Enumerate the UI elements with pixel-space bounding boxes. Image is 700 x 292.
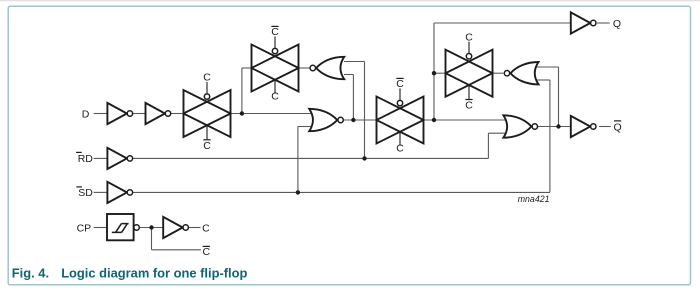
schmitt trigger U5 (CP input) xyxy=(107,214,139,240)
wire TG1 output to node A and NOR G2 input xyxy=(231,113,312,115)
wire schmitt output to node xyxy=(139,227,163,229)
wire Q inverter output xyxy=(597,22,610,24)
wire slave node up to Q xyxy=(434,23,571,120)
svg-text:C: C xyxy=(271,26,279,38)
wire C output xyxy=(189,227,201,229)
wire TG3 output to G4 input xyxy=(424,119,506,121)
node CP junction xyxy=(149,225,153,229)
svg-text:CP: CP xyxy=(77,222,92,234)
wire G1 output to TG2 xyxy=(299,67,310,69)
wire D input xyxy=(94,113,108,115)
svg-text:C: C xyxy=(202,222,210,234)
label Qbar xyxy=(614,121,622,133)
svg-text:C: C xyxy=(271,91,279,103)
svg-text:SD: SD xyxy=(78,187,93,199)
caption title xyxy=(61,265,247,280)
wire G3 lower input from SD net xyxy=(537,80,550,192)
inverter U8 (Qbar output) xyxy=(571,116,596,137)
svg-text:C: C xyxy=(465,31,473,43)
node TG4 tap junction xyxy=(432,71,436,75)
wire G3 output to TG4 xyxy=(493,72,504,74)
svg-text:D: D xyxy=(82,108,90,120)
wire G4 output to Qbar inverter xyxy=(538,126,571,128)
wire G1 upper input from RD net xyxy=(344,62,365,159)
wire SD net xyxy=(133,191,550,193)
node slave junction xyxy=(432,118,436,122)
NOR gate G2 (master) xyxy=(309,109,343,131)
node SD junction xyxy=(296,190,300,194)
wire CP input xyxy=(94,227,107,229)
node RD junction xyxy=(362,156,366,160)
wire G2 lower input from SD net xyxy=(298,127,312,193)
svg-text:C: C xyxy=(203,140,211,152)
NOR gate G4 (slave) xyxy=(503,115,537,137)
wire SD input xyxy=(94,191,108,193)
svg-text:Q: Q xyxy=(613,18,621,30)
node A junction xyxy=(240,111,244,115)
svg-text:RD: RD xyxy=(78,153,94,165)
wire node A up to TG2 input xyxy=(242,68,252,114)
page top edge xyxy=(0,0,700,2)
wire Cbar branch xyxy=(152,228,201,250)
wire G4 lower input from RD net xyxy=(488,133,505,158)
svg-text:C: C xyxy=(465,100,473,112)
wire Qbar inverter output xyxy=(599,126,611,128)
transmission gate TG3 xyxy=(377,78,424,155)
svg-text:C: C xyxy=(396,78,404,90)
label mna421 xyxy=(518,194,550,204)
transmission gate TG4 xyxy=(446,31,493,111)
label Cbar (clock) xyxy=(203,246,211,258)
label C (clock) xyxy=(202,222,210,234)
transmission gate TG1 xyxy=(184,72,231,152)
svg-text:mna421: mna421 xyxy=(518,194,550,204)
wire slave node to TG4 xyxy=(434,72,446,74)
label Q xyxy=(613,18,621,30)
wire G1 lower input from G2 output xyxy=(344,75,353,121)
node Qbar junction xyxy=(556,124,560,128)
node G2 output junction xyxy=(351,118,355,122)
svg-text:C: C xyxy=(396,143,404,155)
svg-text:C: C xyxy=(203,72,211,84)
inverter U2 (D input) xyxy=(146,103,171,124)
wire RD input xyxy=(94,157,108,159)
wire inv1 to inv2 xyxy=(133,113,146,115)
inverter U3 (RD input) xyxy=(107,148,132,169)
wire G3 upper input from Qbar net xyxy=(537,67,559,127)
label RD xyxy=(76,152,93,165)
svg-text:Fig. 4.: Fig. 4. xyxy=(12,265,49,280)
inverter U4 (SD input) xyxy=(107,182,132,203)
svg-text:Logic diagram for one flip-flo: Logic diagram for one flip-flop xyxy=(61,265,247,280)
transmission gate TG2 xyxy=(252,26,299,103)
inverter U6 (C generator) xyxy=(163,217,188,238)
caption Fig. 4. xyxy=(12,265,49,280)
svg-text:Q: Q xyxy=(614,121,622,133)
inverter U7 (Q output) xyxy=(571,12,596,33)
wire RD net xyxy=(133,157,489,159)
svg-text:C: C xyxy=(203,246,211,258)
wire G2 output to TG3 xyxy=(343,119,376,121)
NOR gate G3 (slave feedback, mirrored) xyxy=(504,62,538,84)
inverter U1 (D input) xyxy=(107,103,132,124)
NOR gate G1 (master feedback, mirrored) xyxy=(310,57,344,79)
label SD xyxy=(76,187,93,199)
label CP xyxy=(77,222,92,234)
label D xyxy=(82,108,90,120)
wire inv2 to TG1 xyxy=(171,113,184,115)
